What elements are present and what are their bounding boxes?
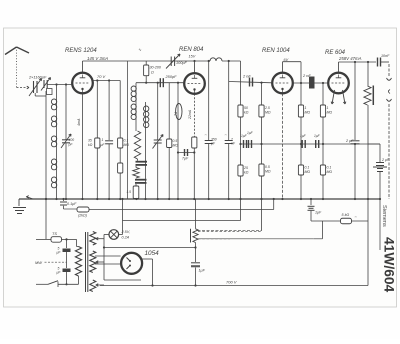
- svg-text:0.5: 0.5: [173, 139, 178, 143]
- svg-text:2 nF: 2 nF: [302, 73, 311, 78]
- svg-text:700 V: 700 V: [226, 280, 237, 285]
- svg-text:MΩ: MΩ: [124, 143, 130, 147]
- svg-text:1: 1: [327, 106, 329, 110]
- svg-text:(2kΩ): (2kΩ): [78, 214, 87, 218]
- svg-text:∼: ∼: [224, 133, 227, 137]
- svg-text:REN 804: REN 804: [179, 47, 204, 53]
- svg-text:10nF: 10nF: [381, 54, 390, 58]
- svg-text:250pF: 250pF: [165, 74, 178, 79]
- svg-text:1μF: 1μF: [300, 134, 307, 138]
- svg-text:2.5: 2.5: [264, 106, 270, 110]
- svg-text:2 μF: 2 μF: [345, 139, 354, 143]
- svg-text:50: 50: [244, 106, 248, 110]
- svg-text:0.1μF: 0.1μF: [67, 202, 77, 206]
- svg-text:REN 1004: REN 1004: [262, 48, 290, 54]
- svg-text:kΩ: kΩ: [244, 171, 249, 175]
- svg-text:100pF: 100pF: [176, 61, 187, 65]
- svg-text:MΩ: MΩ: [305, 111, 311, 115]
- svg-text:1μF: 1μF: [315, 211, 322, 215]
- svg-text:25: 25: [243, 166, 248, 170]
- svg-text:kΩ: kΩ: [244, 111, 249, 115]
- svg-text:MΩ: MΩ: [327, 170, 333, 174]
- svg-text:1: 1: [305, 106, 307, 110]
- svg-text:MΩ: MΩ: [265, 170, 271, 174]
- svg-text:2×1160pF: 2×1160pF: [28, 75, 47, 80]
- svg-text:41W/604: 41W/604: [382, 237, 397, 293]
- svg-text:1μF: 1μF: [247, 131, 254, 135]
- svg-text:7A: 7A: [174, 111, 178, 116]
- svg-text:kΩ: kΩ: [88, 143, 93, 147]
- svg-text:RENS 1204: RENS 1204: [65, 48, 97, 54]
- svg-text:2.5V,: 2.5V,: [121, 230, 131, 234]
- svg-text:1μF: 1μF: [199, 269, 206, 273]
- svg-text:Siemens: Siemens: [381, 205, 387, 227]
- svg-text:4mA: 4mA: [77, 118, 81, 126]
- svg-text:∼: ∼: [204, 133, 207, 137]
- svg-text:MW: MW: [35, 260, 42, 265]
- svg-text:1μF: 1μF: [314, 134, 321, 138]
- svg-text:1054: 1054: [145, 250, 160, 257]
- svg-text:MΩ: MΩ: [327, 111, 333, 115]
- svg-text:70 V: 70 V: [97, 74, 106, 79]
- svg-text:30-200: 30-200: [150, 66, 162, 70]
- svg-text:TS: TS: [52, 231, 57, 236]
- svg-text:MΩ: MΩ: [265, 111, 271, 115]
- svg-text:145 V 3mA: 145 V 3mA: [87, 56, 108, 61]
- svg-text:0.5: 0.5: [265, 165, 270, 169]
- svg-text:2 nF: 2 nF: [242, 74, 251, 79]
- svg-text:15V: 15V: [189, 55, 196, 59]
- svg-text:MΩ: MΩ: [173, 144, 179, 148]
- svg-text:400: 400: [69, 138, 75, 142]
- svg-text:6V: 6V: [284, 58, 289, 62]
- svg-text:1: 1: [102, 138, 104, 142]
- svg-text:0.1: 0.1: [327, 166, 332, 170]
- svg-text:∼: ∼: [354, 215, 357, 219]
- svg-text:5 kΩ: 5 kΩ: [342, 213, 350, 217]
- svg-text:22mA: 22mA: [188, 109, 192, 120]
- svg-text:35: 35: [88, 139, 92, 143]
- svg-text:0.1: 0.1: [305, 166, 310, 170]
- svg-text:7μF: 7μF: [182, 157, 189, 161]
- svg-text:Ω: Ω: [151, 71, 154, 75]
- svg-text:MΩ: MΩ: [305, 170, 311, 174]
- svg-text:258V 47mA: 258V 47mA: [338, 56, 362, 61]
- svg-text:1.5: 1.5: [126, 190, 131, 194]
- svg-text:0.2A: 0.2A: [122, 236, 130, 240]
